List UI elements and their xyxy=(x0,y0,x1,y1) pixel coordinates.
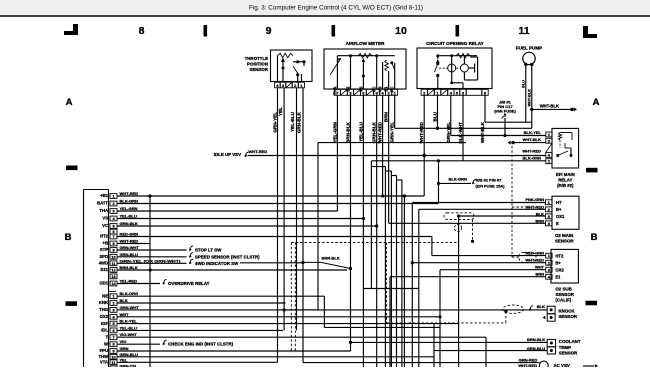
svg-text:BRN-BLK: BRN-BLK xyxy=(322,256,340,261)
svg-text:IGF: IGF xyxy=(101,321,108,326)
svg-text:AIRFLOW METER: AIRFLOW METER xyxy=(346,41,385,46)
svg-text:YEL-BLU: YEL-BLU xyxy=(120,325,137,330)
svg-text:A: A xyxy=(66,97,73,108)
svg-text:(R/B #2): (R/B #2) xyxy=(557,183,574,188)
svg-text:GRN: GRN xyxy=(120,346,129,351)
svg-text:BRN-BLK: BRN-BLK xyxy=(120,265,138,270)
svg-text:STOP LT SW: STOP LT SW xyxy=(195,248,222,253)
svg-text:E: E xyxy=(556,221,559,226)
svg-text:11: 11 xyxy=(111,262,115,266)
svg-text:SENSOR: SENSOR xyxy=(555,238,574,243)
svg-text:5: 5 xyxy=(112,225,114,229)
svg-text:4WD: 4WD xyxy=(99,261,108,266)
svg-text:GRN-BLU: GRN-BLU xyxy=(120,352,139,357)
svg-text:1: 1 xyxy=(112,295,114,299)
svg-text:YEL: YEL xyxy=(278,107,283,116)
svg-text:8: 8 xyxy=(112,242,114,246)
svg-text:STP: STP xyxy=(100,247,108,252)
svg-text:CHECK ENG IND (INST CLSTR): CHECK ENG IND (INST CLSTR) xyxy=(168,342,234,347)
svg-text:T: T xyxy=(105,334,108,339)
svg-text:SENSOR: SENSOR xyxy=(555,292,574,297)
svg-text:GRN-WHT: GRN-WHT xyxy=(120,245,140,250)
svg-text:AC VSV: AC VSV xyxy=(554,363,570,367)
svg-text:BLK-GRN: BLK-GRN xyxy=(523,156,542,161)
svg-text:VTA: VTA xyxy=(100,360,108,365)
svg-text:WHT-BLK: WHT-BLK xyxy=(540,104,559,109)
svg-text:WHT-RED: WHT-RED xyxy=(525,258,544,263)
svg-text:VIO: VIO xyxy=(120,339,127,344)
svg-text:WHT-RED: WHT-RED xyxy=(522,149,541,154)
svg-text:SPD: SPD xyxy=(99,254,108,259)
svg-text:B: B xyxy=(591,232,598,243)
svg-text:POSITION: POSITION xyxy=(247,62,268,67)
svg-text:+B: +B xyxy=(103,241,108,246)
svg-text:9: 9 xyxy=(112,350,114,354)
svg-text:SENSOR: SENSOR xyxy=(559,350,578,355)
svg-text:OVERDRIVE RELAY: OVERDRIVE RELAY xyxy=(168,281,210,286)
svg-text:YEL-RED: YEL-RED xyxy=(120,279,138,284)
svg-text:BLK-YEL: BLK-YEL xyxy=(120,319,138,324)
svg-text:GRN-BLU: GRN-BLU xyxy=(120,252,139,257)
svg-text:VS: VS xyxy=(102,216,108,221)
svg-text:FPU: FPU xyxy=(100,348,108,353)
svg-text:BRN-BLK: BRN-BLK xyxy=(345,121,350,143)
svg-text:GRN-YEL: GRN-YEL xyxy=(120,363,139,367)
svg-text:WHT-RED: WHT-RED xyxy=(518,363,537,367)
svg-text:WHT: WHT xyxy=(535,265,545,270)
svg-text:VC: VC xyxy=(102,223,108,228)
svg-text:BLK: BLK xyxy=(120,298,128,303)
svg-text:CIRCUIT OPENING RELAY: CIRCUIT OPENING RELAY xyxy=(426,41,484,46)
svg-text:6: 6 xyxy=(112,230,114,234)
svg-text:GRN-YEL: GRN-YEL xyxy=(446,122,451,143)
svg-text:3: 3 xyxy=(112,308,114,312)
svg-text:B+: B+ xyxy=(555,261,561,266)
svg-text:THROTTLE: THROTTLE xyxy=(245,56,268,61)
svg-text:BLK-GRN: BLK-GRN xyxy=(120,199,139,204)
svg-text:THA: THA xyxy=(99,208,108,213)
svg-text:10: 10 xyxy=(111,355,115,359)
svg-text:GRN-BLK: GRN-BLK xyxy=(120,221,139,226)
svg-text:3: 3 xyxy=(112,210,114,214)
svg-text:WHT-BLK: WHT-BLK xyxy=(523,137,542,142)
svg-text:8: 8 xyxy=(139,25,145,37)
svg-text:11: 11 xyxy=(518,25,529,37)
svg-text:9: 9 xyxy=(112,249,114,253)
svg-text:7: 7 xyxy=(112,235,114,239)
svg-text:BLK-GRN: BLK-GRN xyxy=(449,176,468,181)
svg-text:E1: E1 xyxy=(555,275,561,280)
svg-text:GRN-BLK: GRN-BLK xyxy=(296,111,301,133)
svg-text:WHT-RED: WHT-RED xyxy=(120,191,139,196)
svg-text:KNOCK: KNOCK xyxy=(559,308,576,313)
svg-text:EFI MAIN: EFI MAIN xyxy=(556,172,575,177)
svg-text:YEL-GRN: YEL-GRN xyxy=(332,121,337,142)
svg-text:WHT: WHT xyxy=(120,312,130,317)
svg-text:B: B xyxy=(65,232,72,243)
svg-text:HT: HT xyxy=(556,200,562,205)
svg-text:IDL: IDL xyxy=(101,328,108,333)
svg-text:2: 2 xyxy=(112,302,114,306)
svg-text:1: 1 xyxy=(112,195,114,199)
svg-text:6: 6 xyxy=(112,329,114,333)
svg-text:FUEL PUMP: FUEL PUMP xyxy=(516,46,542,51)
svg-text:RELAY: RELAY xyxy=(558,178,572,183)
svg-text:W: W xyxy=(104,341,108,346)
svg-text:8: 8 xyxy=(112,343,114,347)
svg-text:11: 11 xyxy=(111,361,115,365)
svg-text:(EFI FUSE 15A): (EFI FUSE 15A) xyxy=(476,184,506,189)
svg-text:PNK-GRN: PNK-GRN xyxy=(525,197,544,202)
svg-text:BRN: BRN xyxy=(535,218,544,223)
svg-text:YEL-BLU: YEL-BLU xyxy=(358,121,363,142)
svg-text:A: A xyxy=(593,97,600,108)
svg-text:WHT-RED: WHT-RED xyxy=(419,121,424,143)
svg-text:OX1: OX1 xyxy=(556,214,565,219)
svg-text:BATT: BATT xyxy=(97,201,108,206)
svg-text:THG: THG xyxy=(99,307,108,312)
svg-text:WHT-RED: WHT-RED xyxy=(249,149,268,154)
svg-text:4WD INDICATOR SW: 4WD INDICATOR SW xyxy=(195,261,239,266)
svg-text:WHT-BLK: WHT-BLK xyxy=(480,121,485,143)
svg-text:SPEED SENSOR (INST CLSTR): SPEED SENSOR (INST CLSTR) xyxy=(195,254,260,259)
svg-text:BRN: BRN xyxy=(384,111,389,122)
svg-text:IDLE UP VSV: IDLE UP VSV xyxy=(214,152,241,157)
svg-text:13: 13 xyxy=(111,275,115,279)
svg-text:B+: B+ xyxy=(556,207,562,212)
svg-text:BLU: BLU xyxy=(433,111,438,121)
svg-text:COOLANT: COOLANT xyxy=(559,339,581,344)
svg-text:RED-GRN: RED-GRN xyxy=(120,232,139,237)
svg-text:WHT-BLK: WHT-BLK xyxy=(527,89,531,107)
svg-text:BLK: BLK xyxy=(537,304,545,309)
svg-text:(CALIF): (CALIF) xyxy=(555,298,571,303)
svg-text:BRN-BLK: BRN-BLK xyxy=(527,337,545,342)
svg-text:Fig. 3: Computer Engine Contro: Fig. 3: Computer Engine Control (4 CYL W… xyxy=(249,5,423,12)
svg-text:OX2: OX2 xyxy=(555,268,564,273)
svg-text:BLK-ORG: BLK-ORG xyxy=(120,291,139,296)
svg-text:THW: THW xyxy=(98,354,108,359)
svg-text:BLK-YEL: BLK-YEL xyxy=(524,130,542,135)
svg-text:12: 12 xyxy=(111,269,115,273)
svg-text:7: 7 xyxy=(112,336,114,340)
svg-text:RED-GRN: RED-GRN xyxy=(525,251,544,256)
svg-text:2: 2 xyxy=(112,202,114,206)
svg-text:WHT-RED: WHT-RED xyxy=(525,204,544,209)
svg-text:+B1: +B1 xyxy=(100,193,108,198)
svg-text:GRN-YEL: GRN-YEL xyxy=(272,112,277,133)
svg-text:VIO-WHT: VIO-WHT xyxy=(120,332,138,337)
svg-text:YEL-BLU: YEL-BLU xyxy=(120,214,137,219)
svg-text:GRN-WHT: GRN-WHT xyxy=(120,305,140,310)
svg-text:SENSOR: SENSOR xyxy=(249,67,268,72)
svg-text:TEMP: TEMP xyxy=(559,345,571,350)
svg-text:BLK-WHT: BLK-WHT xyxy=(458,122,463,144)
svg-text:BRN: BRN xyxy=(535,272,544,277)
svg-text:(IGN FUSE): (IGN FUSE) xyxy=(494,109,516,114)
svg-text:10: 10 xyxy=(395,25,407,37)
svg-text:OX2: OX2 xyxy=(100,314,109,319)
svg-text:E21: E21 xyxy=(101,267,109,272)
svg-text:O2 SUB: O2 SUB xyxy=(555,286,571,291)
svg-text:10: 10 xyxy=(111,255,115,259)
svg-text:HT2: HT2 xyxy=(555,253,564,258)
svg-text:O2 MAIN: O2 MAIN xyxy=(555,233,573,238)
svg-text:GRN-RED: GRN-RED xyxy=(519,357,538,362)
svg-text:BLU: BLU xyxy=(521,80,525,88)
svg-text:OD1: OD1 xyxy=(99,281,108,286)
svg-text:KNK: KNK xyxy=(99,300,108,305)
svg-text:GRN-BLK: GRN-BLK xyxy=(372,121,377,143)
svg-text:R/B #2 PIN #7: R/B #2 PIN #7 xyxy=(476,177,503,182)
svg-text:GRN-YEL: GRN-YEL xyxy=(390,122,395,143)
svg-text:YEL-GRN: YEL-GRN xyxy=(120,206,138,211)
svg-text:SENSOR: SENSOR xyxy=(559,314,578,319)
svg-text:9: 9 xyxy=(266,25,272,37)
svg-text:NE: NE xyxy=(102,293,108,298)
svg-text:YEL-BLU: YEL-BLU xyxy=(290,111,295,132)
svg-text:WHT-RED: WHT-RED xyxy=(378,121,383,143)
svg-text:YEL: YEL xyxy=(120,357,128,362)
svg-text:HT2: HT2 xyxy=(100,234,109,239)
svg-text:WHT-RED: WHT-RED xyxy=(120,239,139,244)
svg-text:5: 5 xyxy=(112,322,114,326)
